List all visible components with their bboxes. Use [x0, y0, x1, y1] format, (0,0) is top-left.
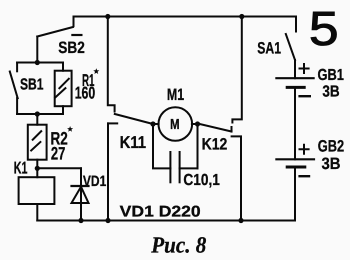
- svg-text:GB2: GB2: [318, 138, 344, 156]
- svg-text:27: 27: [51, 144, 66, 164]
- svg-text:3B: 3B: [322, 84, 339, 101]
- svg-text:5: 5: [309, 3, 339, 56]
- svg-text:C10,1: C10,1: [183, 172, 220, 189]
- svg-text:VD1: VD1: [83, 173, 106, 190]
- svg-text:SB1: SB1: [20, 77, 44, 94]
- svg-text:K11: K11: [120, 133, 147, 152]
- svg-text:SA1: SA1: [257, 39, 281, 57]
- svg-text:3B: 3B: [322, 155, 341, 173]
- svg-text:160: 160: [75, 84, 96, 103]
- svg-text:K12: K12: [202, 136, 228, 154]
- svg-text:VD1 D220: VD1 D220: [120, 203, 201, 220]
- svg-text:M: M: [170, 117, 180, 133]
- svg-text:SB2: SB2: [58, 39, 85, 57]
- svg-text:Рис. 8: Рис. 8: [150, 232, 206, 257]
- svg-text:K1: K1: [14, 158, 28, 177]
- svg-text:M1: M1: [167, 86, 184, 104]
- svg-text:GB1: GB1: [318, 67, 344, 84]
